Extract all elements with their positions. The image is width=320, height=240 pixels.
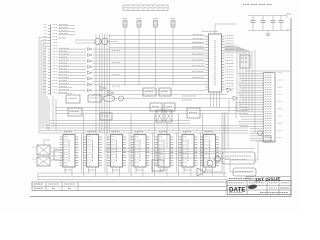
svg-text:DATE: DATE bbox=[229, 187, 245, 194]
svg-text:1ST ISSUE: 1ST ISSUE bbox=[255, 177, 281, 184]
